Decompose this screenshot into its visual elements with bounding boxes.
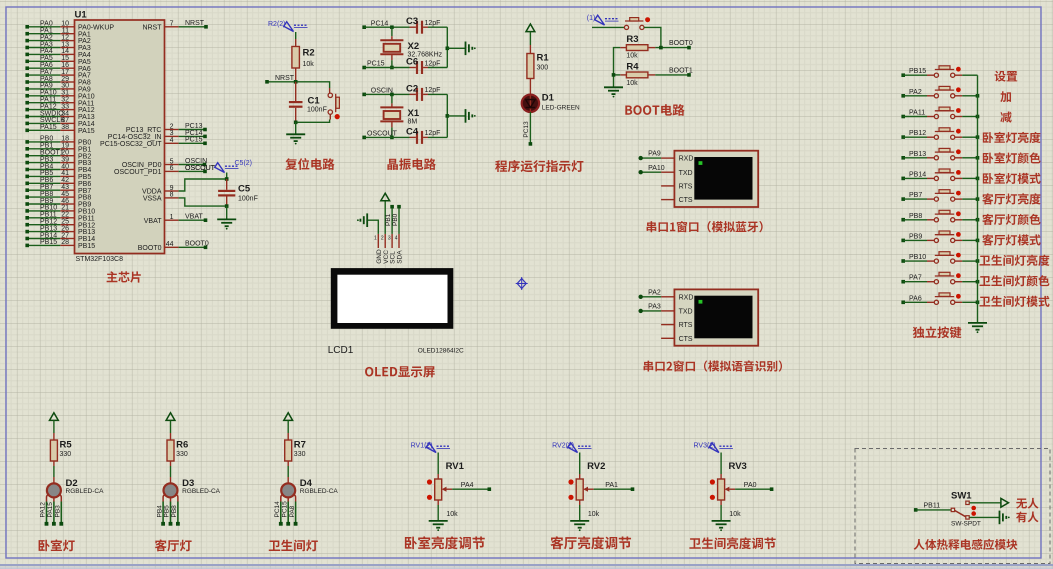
svg-text:SDA: SDA (397, 250, 404, 264)
label 卫生间灯 (bathroom light) (269, 540, 318, 552)
ground (rotated right) (465, 109, 467, 123)
U1 pin 34 (PA13) wire, net label SWDIO (25, 110, 94, 121)
capacitor C6 12pF (406, 57, 440, 75)
wire C4 to right bus (428, 136, 447, 138)
svg-text:3: 3 (388, 236, 391, 242)
wire D3 leg PB5 (164, 502, 173, 526)
label OLED显示屏 (365, 366, 435, 377)
svg-text:PB11: PB11 (924, 503, 941, 510)
ground (OLED, rotated left) (366, 213, 368, 227)
resistor R4 10k (620, 61, 655, 87)
U1 pin 17 (PA7) wire, net label PA7 (25, 69, 90, 80)
LED D1 LED-GREEN (522, 93, 580, 113)
U1 pin 44 (BOOT0) (138, 241, 209, 252)
U1 pin 6 (OSCOUT_PD1) (114, 165, 216, 176)
label 人体热释电感应模块 (PIR module) (914, 539, 1018, 550)
svg-text:PB4: PB4 (156, 505, 163, 518)
svg-text:RV2(2): RV2(2) (552, 443, 574, 450)
OLED pin 2 VCC (381, 234, 390, 264)
svg-text:OSCOUT: OSCOUT (185, 165, 216, 172)
wire OLED SDA (398, 207, 400, 234)
svg-text:RV1(2): RV1(2) (411, 443, 433, 450)
wire R7 to D4 (287, 466, 289, 477)
svg-text:VBAT: VBAT (185, 214, 203, 221)
svg-text:PA3: PA3 (648, 304, 661, 311)
resistor R2 10k (292, 39, 315, 82)
wire C2 to right bus (428, 93, 447, 95)
svg-text:PB3: PB3 (55, 505, 62, 518)
wire VDDA to C5 top (179, 179, 227, 191)
push button key 9 (客厅灯模式) with net PB9 (901, 231, 977, 242)
junction key bus row 9 (976, 239, 980, 243)
svg-text:330: 330 (176, 451, 188, 458)
wire PA9 to serial1 RXD (639, 151, 662, 161)
svg-text:100nF: 100nF (238, 196, 258, 203)
svg-text:PA10: PA10 (648, 165, 665, 172)
wire probe to button (592, 26, 624, 28)
push button key 4 (卧室灯亮度) with net PB12 (901, 128, 977, 139)
svg-text:7: 7 (170, 21, 174, 28)
wire to ground (reset) (295, 122, 297, 134)
U1 pin 16 (PA6) wire, net label PA6 (25, 62, 90, 73)
svg-text:R2(2): R2(2) (268, 21, 286, 28)
svg-text:44: 44 (166, 241, 174, 248)
U1 pin 8 (VSSA) (143, 192, 179, 203)
svg-text:LED-GREEN: LED-GREEN (542, 105, 580, 112)
ground (BOOT circuit) (604, 86, 623, 88)
ground (rotated right) (465, 42, 467, 56)
junction bus/ground stub (446, 47, 450, 51)
svg-text:PA1: PA1 (605, 482, 618, 489)
junction OSCOUT/crystal (390, 136, 394, 140)
svg-text:TXD: TXD (679, 170, 693, 177)
terminal dot BOOT0 (687, 46, 691, 50)
wire probe to RV2 (579, 453, 581, 475)
U1 pin 15 (PA5) wire, net label PA5 (25, 55, 90, 66)
net label PC15 wire (362, 61, 416, 70)
wire SW1 upper contact to power arrow (970, 502, 1001, 504)
svg-text:BOOT1: BOOT1 (669, 68, 693, 75)
wire power to R5 (53, 420, 55, 433)
svg-text:OLED12864I2C: OLED12864I2C (418, 348, 464, 355)
terminal serial1 pin RTS (661, 184, 693, 191)
wire PA3 to serial2 TXD (639, 304, 662, 314)
label 卧室亮度调节 (405, 536, 485, 549)
U1 pin 20 (PB2) wire, net label BOOT1 (25, 150, 91, 161)
junction key bus row 8 (976, 218, 980, 222)
svg-text:2: 2 (381, 236, 384, 242)
junction C5 bottom (225, 204, 229, 208)
terminal dot SCL (390, 205, 394, 209)
svg-text:PC15: PC15 (185, 137, 203, 144)
svg-text:(1): (1) (587, 15, 596, 22)
wire D4 leg PC14 (274, 501, 283, 526)
terminal serial2 screen (694, 296, 752, 339)
power arrow (无人) (1001, 498, 1009, 507)
svg-text:X2: X2 (408, 41, 420, 52)
label 无人 (1016, 498, 1038, 509)
key label 客厅灯颜色 (982, 214, 1040, 225)
wire probe to R2 (295, 32, 297, 39)
svg-text:PA15: PA15 (47, 502, 54, 518)
wire button to BOOT0 node (644, 27, 661, 47)
junction bus/ground stub (446, 114, 450, 118)
dashed module box (855, 449, 1050, 564)
ground (rotated right, 有人) (999, 511, 1001, 525)
junction key bus row 11 (976, 280, 980, 284)
svg-text:PC15: PC15 (367, 61, 385, 68)
ground (RV1) (429, 520, 448, 522)
label 主芯片 (main chip) (107, 271, 141, 282)
U1 pin 2 (PC13_RTC) (126, 123, 207, 134)
svg-text:PC14: PC14 (371, 20, 389, 27)
capacitor C5 (218, 179, 258, 206)
push button key 2 (加) with net PA2 (901, 86, 977, 98)
wire RV2 to ground (579, 505, 581, 521)
key bus vertical wire (977, 75, 979, 323)
svg-text:100nF: 100nF (307, 107, 327, 114)
wire R5 to D2 (53, 466, 55, 477)
svg-text:PA4: PA4 (461, 482, 474, 489)
U1 pin 27 (PB14) wire, net label PB14 (25, 232, 95, 243)
label 有人 (1016, 512, 1038, 523)
wire wiper to PA4 (452, 482, 491, 491)
power arrow (indicator) (526, 24, 535, 32)
U1 pin 25 (PB12) wire, net label PB12 (25, 219, 95, 230)
virtual terminal serial1 body (674, 151, 758, 207)
junction R4/ground bus (612, 73, 616, 77)
key label 设置 (995, 71, 1018, 82)
wire PA2 to serial2 RXD (639, 289, 662, 299)
svg-text:BOOT0: BOOT0 (185, 241, 209, 248)
wire OLED GND to ground (367, 220, 378, 234)
U1 pin 46 (PB9) wire, net label PB9 (25, 198, 91, 209)
junction key bus row 7 (976, 197, 980, 201)
junction key bus row 3 (976, 115, 980, 119)
svg-text:RV1: RV1 (446, 461, 465, 472)
svg-text:R3: R3 (626, 34, 638, 45)
wire wiper to PA1 (594, 482, 635, 491)
terminal dot PC13 (529, 142, 533, 146)
wire D2 leg PA12 (40, 502, 49, 526)
wire R3 left to ground bus (614, 48, 621, 88)
svg-text:RXD: RXD (679, 294, 694, 301)
svg-text:6: 6 (170, 165, 174, 172)
terminal serial1 pin CTS (661, 197, 693, 204)
wire PA10 to serial1 TXD (639, 165, 665, 175)
svg-text:LCD1: LCD1 (328, 345, 354, 356)
power arrow (D2) (50, 413, 59, 421)
svg-text:300: 300 (537, 65, 549, 72)
push button key 3 (减) with net PA11 (901, 107, 977, 119)
svg-text:10k: 10k (729, 511, 741, 518)
junction PC14/crystal (390, 25, 394, 29)
svg-text:PB9: PB9 (909, 233, 922, 240)
svg-text:C2: C2 (406, 83, 418, 94)
resistor R3 10k (620, 34, 655, 60)
svg-text:10k: 10k (446, 511, 458, 518)
probe marker C5(2) (215, 163, 225, 173)
net label OSCIN wire (362, 88, 416, 97)
junction PC15/crystal (390, 66, 394, 70)
svg-text:NRST: NRST (185, 20, 205, 27)
svg-text:1: 1 (170, 214, 174, 221)
wire D1 to PC13 terminal (529, 112, 531, 144)
svg-text:PA9: PA9 (648, 151, 661, 158)
svg-text:C6: C6 (406, 57, 418, 68)
label 程序运行指示灯 (495, 160, 583, 172)
label 复位电路 (reset circuit) (285, 158, 334, 170)
potentiometer RV1 10k (427, 461, 465, 518)
push button key 11 (卫生间灯颜色) with net PA7 (901, 272, 977, 284)
U1 pin 12 (PA2) wire, net label PA2 (25, 34, 90, 45)
wire probe to C5 node (226, 173, 228, 180)
wire bus to ground (447, 115, 465, 117)
terminal serial2 pin CTS (661, 336, 693, 343)
U1 pin 3 (PC14-OSC32_IN) (108, 130, 207, 141)
resistor R5 330 (50, 433, 72, 466)
svg-text:PB15: PB15 (40, 239, 57, 246)
wire probe to RV3 (720, 453, 722, 475)
ground (RV2) (570, 520, 589, 522)
svg-text:RGBLED-CA: RGBLED-CA (300, 488, 339, 495)
wire SW1 lower contact to ground (970, 516, 1000, 518)
wire D4 leg PA8 (289, 502, 298, 526)
wire button bottom to C1 bottom (296, 120, 330, 123)
svg-text:OSCIN: OSCIN (371, 88, 393, 95)
U1 pin 4 (PC15-OSC32_OUT) (100, 137, 207, 148)
svg-text:R2: R2 (303, 48, 315, 59)
svg-text:8: 8 (170, 192, 174, 199)
junction key bus row 5 (976, 156, 980, 160)
push button key 5 (卧室灯颜色) with net PB13 (901, 148, 977, 160)
svg-text:PA11: PA11 (909, 110, 925, 117)
crystal X2 32.768KHz (380, 27, 442, 67)
capacitor C4 12pF (406, 126, 440, 144)
wire C3 to right bus (428, 26, 447, 28)
U1 pin 18 (PB0) wire, net label PB0 (25, 136, 91, 147)
label BOOT电路 (625, 104, 684, 116)
U1 pin 42 (PB6) wire, net label PB6 (25, 177, 91, 188)
svg-text:STM32F103C8: STM32F103C8 (76, 256, 124, 263)
ground (key column) (968, 322, 987, 324)
terminal serial2 pin TXD (661, 309, 693, 316)
key label 卫生间灯模式 (980, 296, 1050, 307)
svg-text:BOOT0: BOOT0 (138, 245, 162, 252)
svg-text:RV2: RV2 (587, 461, 605, 472)
wire R4 right to BOOT1 (655, 74, 689, 76)
svg-text:330: 330 (60, 451, 72, 458)
U1 pin 19 (PB1) wire, net label PB1 (25, 143, 91, 154)
label 串口2窗口（模拟语音识别） (644, 360, 782, 371)
key label 卫生间灯亮度 (980, 255, 1050, 266)
svg-text:12pF: 12pF (425, 20, 441, 27)
U1 pin 41 (PB5) wire, net label PB5 (25, 170, 91, 181)
svg-text:PB8: PB8 (909, 213, 922, 220)
wire bus to ground (447, 47, 465, 49)
right bus wire (446, 94, 448, 137)
U1 pin 33 (PA12) wire, net label PA12 (25, 103, 94, 114)
svg-text:12pF: 12pF (425, 87, 441, 94)
label 客厅灯 (living room light) (155, 539, 192, 551)
wire D2 leg PB3 (55, 502, 64, 526)
svg-text:PA0: PA0 (744, 482, 757, 489)
wire C6 to right bus (428, 67, 447, 69)
svg-text:RTS: RTS (679, 322, 693, 329)
svg-text:28: 28 (61, 239, 69, 246)
junction BOOT0/button (659, 46, 663, 50)
key label 卫生间灯颜色 (980, 275, 1050, 286)
svg-text:PB0: PB0 (392, 213, 399, 226)
svg-text:C5: C5 (238, 184, 251, 195)
svg-text:C4: C4 (406, 126, 419, 137)
svg-text:R5: R5 (60, 439, 73, 450)
power arrow (D3) (166, 413, 175, 421)
terminal dot SDA (397, 205, 401, 209)
junction key bus row 10 (976, 259, 980, 263)
U1 pin 6 OSCOUT wire and net label (179, 165, 216, 173)
svg-text:10k: 10k (303, 61, 315, 68)
svg-text:OSCOUT_PD1: OSCOUT_PD1 (114, 169, 162, 176)
potentiometer RV2 10k (568, 461, 605, 518)
net label PC14 wire (362, 20, 416, 29)
U1 pin 30 (PA9) wire, net label PA9 (25, 83, 90, 94)
svg-text:CTS: CTS (679, 197, 693, 204)
wire RV3 to ground (720, 505, 722, 521)
power arrow (D4) (284, 413, 293, 421)
crystal X1 8M (380, 94, 420, 137)
push button (reset) (328, 88, 340, 120)
svg-text:PA6: PA6 (909, 295, 922, 302)
wire D4 leg PC15 (281, 501, 290, 526)
wire power to R6 (170, 420, 172, 433)
wire NRST horizontal (267, 82, 330, 88)
wire R4 left to ground bus (614, 74, 621, 76)
push button key 10 (卫生间灯亮度) with net PB10 (901, 252, 977, 264)
key label 减 (1000, 111, 1011, 122)
svg-text:CTS: CTS (679, 336, 693, 343)
svg-text:D1: D1 (542, 93, 555, 104)
wire D3 leg PB4 (156, 502, 165, 526)
svg-text:PA15: PA15 (40, 124, 57, 131)
U1 pin 9 (VDDA) (142, 185, 179, 196)
microcontroller U1 STM32F103C8 body (75, 20, 165, 254)
label 晶振电路 (crystal circuit) (387, 158, 435, 170)
wire PB11 to SW1 (914, 503, 951, 512)
svg-text:8M: 8M (408, 119, 418, 126)
svg-text:PA2: PA2 (648, 289, 661, 296)
terminal serial2 pin RXD (661, 294, 693, 301)
svg-text:PA2: PA2 (909, 89, 922, 96)
junction C5 top (225, 177, 229, 181)
svg-text:PB15: PB15 (909, 68, 926, 75)
wire OLED VCC to power (384, 201, 386, 234)
terminal serial2 pin RTS (661, 322, 693, 329)
power arrow (OLED VCC) (381, 193, 390, 201)
wire C5 to ground (226, 206, 228, 219)
U1 pin 45 (PB8) wire, net label PB8 (25, 191, 91, 202)
key label 加 (1000, 91, 1011, 102)
svg-text:PA12: PA12 (40, 502, 47, 518)
svg-text:RTS: RTS (679, 184, 693, 191)
U1 pin 21 (PB10) wire, net label PB10 (25, 205, 95, 216)
key label 卧室灯颜色 (983, 152, 1041, 163)
resistor R1 300 (527, 45, 549, 95)
terminal serial1 pin TXD (661, 170, 693, 177)
junction key bus row 6 (976, 177, 980, 181)
U1 pin 32 (PA11) wire, net label PA11 (25, 97, 94, 108)
svg-text:RGBLED-CA: RGBLED-CA (182, 488, 221, 495)
U1 pin 11 (PA1) wire, net label PA1 (25, 28, 90, 39)
svg-text:10k: 10k (626, 53, 638, 60)
svg-text:38: 38 (61, 124, 69, 131)
wire power to R7 (287, 420, 289, 433)
svg-text:SW-SPDT: SW-SPDT (951, 521, 981, 528)
label 卧室灯 (bedroom light) (39, 539, 75, 551)
blue origin marker (516, 277, 528, 290)
svg-text:VBAT: VBAT (144, 218, 162, 225)
svg-text:1: 1 (374, 236, 377, 242)
RGB LED D3 RGBLED-CA (163, 477, 221, 502)
U1 pin 7 (NRST) (142, 20, 207, 31)
svg-text:PA8: PA8 (289, 505, 296, 517)
svg-text:PC14: PC14 (274, 501, 281, 518)
svg-text:R6: R6 (176, 439, 188, 450)
key label 客厅灯亮度 (982, 193, 1040, 204)
probe marker R2(2) (284, 22, 294, 32)
svg-text:RXD: RXD (679, 156, 694, 163)
wire R6 to D3 (170, 466, 172, 477)
U1 pin 5 (OSCIN_PD0) (122, 158, 207, 169)
svg-text:RV3(2): RV3(2) (694, 443, 716, 450)
svg-text:BOOT0: BOOT0 (669, 40, 693, 47)
svg-text:10k: 10k (626, 80, 638, 87)
svg-text:PA15: PA15 (78, 128, 95, 135)
wire D3 leg PB8 (171, 502, 180, 526)
junction C1 bottom (294, 121, 298, 125)
terminal dot BOOT1 (687, 73, 691, 77)
capacitor C1 100nF (289, 82, 327, 123)
resistor R6 330 (167, 433, 188, 466)
wire VSSA to C5 bottom (179, 198, 227, 206)
svg-text:R4: R4 (626, 61, 639, 72)
U1 pin 22 (PB11) wire, net label PB11 (25, 212, 94, 223)
svg-text:C3: C3 (406, 16, 418, 27)
terminal serial1 screen (694, 157, 752, 200)
probe marker RV3(2) (709, 443, 719, 453)
U1 pin 13 (PA3) wire, net label PA3 (25, 41, 90, 52)
U1 pin 37 (PA14) wire, net label SWCLK (25, 117, 94, 128)
wire R3 right to BOOT0 (655, 47, 689, 49)
probe marker RV1(2) (426, 443, 436, 453)
terminal dot NRST (265, 80, 269, 84)
wire OLED SCL (391, 207, 393, 234)
capacitor C3 12pF (406, 16, 440, 34)
wire D2 leg PA15 (47, 502, 56, 526)
RGB LED D4 RGBLED-CA (281, 477, 339, 502)
U1 pin 14 (PA4) wire, net label PA4 (25, 48, 90, 59)
junction NRST / R2 / C1 (294, 80, 298, 84)
ground below C5 (217, 218, 236, 220)
push button key 7 (客厅灯亮度) with net PB7 (901, 190, 977, 202)
label 串口1窗口（模拟蓝牙） (647, 221, 763, 232)
U1 pin 40 (PB4) wire, net label PB4 (25, 163, 91, 174)
label 独立按键 (independent keys) (913, 326, 962, 338)
U1 pin 31 (PA10) wire, net label PA10 (25, 90, 94, 101)
key label 客厅灯模式 (982, 234, 1040, 245)
svg-text:PC15: PC15 (281, 501, 288, 518)
svg-text:PC13: PC13 (523, 121, 530, 138)
